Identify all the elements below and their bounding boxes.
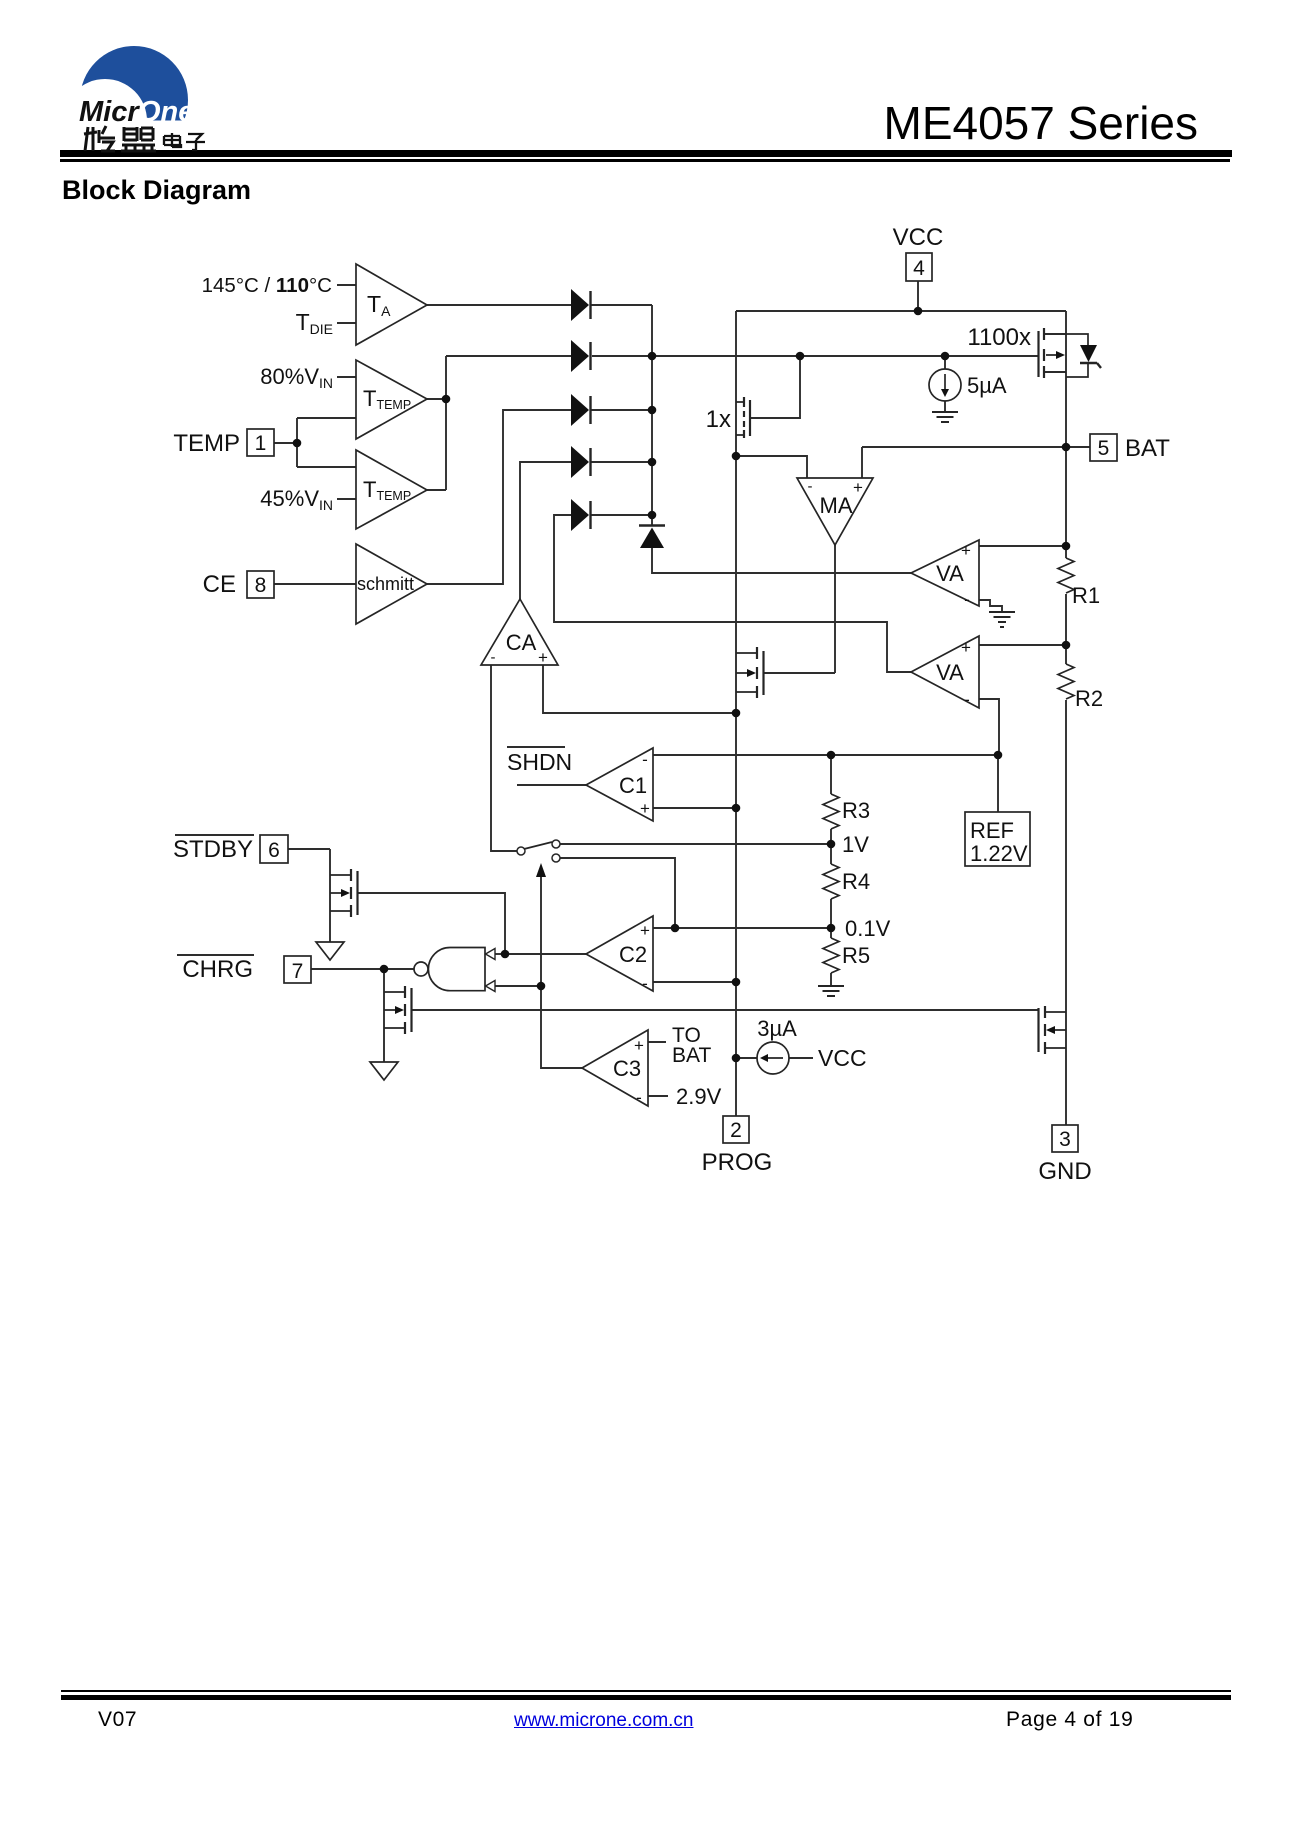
wire TA input TDIE	[337, 322, 356, 324]
junction CA noninv	[732, 709, 741, 718]
svg-text:3: 3	[1059, 1128, 1071, 1151]
switch control arrow	[536, 863, 546, 877]
svg-text:R1: R1	[1072, 583, 1100, 608]
pin box 6 STDBY	[260, 835, 288, 863]
junction C2 inv	[732, 978, 741, 987]
svg-text:+: +	[538, 648, 548, 667]
current source 5uA	[929, 369, 961, 401]
wire switch lower throw to C2 noninv	[560, 858, 675, 928]
svg-text:R3: R3	[842, 798, 870, 823]
ground triangle STDBY	[316, 942, 344, 960]
wire NAND upper input	[494, 953, 505, 955]
svg-text:C3: C3	[613, 1056, 641, 1081]
1100x body arrow	[1056, 351, 1065, 359]
CHRG FET body arrow	[395, 1006, 404, 1014]
junction bus row4	[648, 458, 657, 467]
logo CJK 盟	[121, 127, 156, 151]
NAND input arrow upper	[486, 949, 496, 960]
GND FET body arrow	[1046, 1026, 1055, 1034]
svg-text:1x: 1x	[706, 406, 731, 433]
junction bus row3	[648, 406, 657, 415]
svg-text:-: -	[964, 690, 970, 709]
junction VCC pin	[914, 307, 923, 316]
wire TA output to diode D1	[427, 304, 571, 306]
diode D1 bar	[589, 291, 591, 319]
wire VA1 noninv to BAT rail	[979, 545, 1066, 547]
overline SHDN	[507, 746, 565, 748]
junction 1x gate	[796, 352, 805, 361]
wire schmitt output up to diode D3	[427, 410, 571, 584]
wire OR bus vertical	[651, 305, 653, 525]
logo CJK 电	[164, 133, 181, 147]
wire STDBY pin to FET	[288, 848, 330, 850]
svg-text:2.9V: 2.9V	[676, 1084, 722, 1109]
svg-text:PROG: PROG	[702, 1149, 773, 1176]
wire 1x drain to MA inverting input	[736, 456, 807, 478]
wire SHDN net	[517, 784, 586, 786]
resistor R2	[1058, 664, 1074, 699]
svg-text:MA: MA	[820, 493, 853, 518]
op-amp CA	[481, 599, 558, 665]
wire BAT R1 R2 rail	[1065, 311, 1067, 1125]
wire VA2 noninv to R1R2 tap	[979, 644, 1066, 646]
transistor STDBY open-drain FET	[351, 869, 358, 917]
switch throw upper contact	[552, 840, 560, 848]
section heading	[62, 175, 251, 206]
wire TTEMP outputs bus to diode D2	[427, 356, 571, 490]
wire CHRG pin to NAND output	[311, 968, 414, 970]
svg-text:4: 4	[913, 257, 925, 280]
wire VA1 inv to ground	[979, 600, 1002, 612]
svg-text:SHDN: SHDN	[507, 749, 572, 775]
overline CHRG	[177, 954, 254, 956]
svg-text:5: 5	[1098, 437, 1110, 460]
wire switch control from C3	[541, 877, 582, 1068]
sense NMOS body arrow	[747, 669, 756, 677]
diode D5	[571, 499, 589, 531]
logo	[0, 0, 260, 165]
svg-text:1: 1	[255, 432, 267, 455]
wire REF box stub	[997, 755, 999, 812]
footer page	[1006, 1708, 1134, 1732]
resistor R3	[823, 794, 839, 829]
op-amp TTEMP upper	[356, 360, 427, 439]
wire C2 inv to PROG bus	[653, 981, 736, 983]
wire CE pin to schmitt	[274, 583, 356, 585]
junction REF box	[994, 751, 1003, 760]
transistor 1100x pass device	[1039, 328, 1045, 378]
svg-text:-: -	[642, 974, 648, 993]
transistor CHRG open-drain FET	[405, 986, 412, 1034]
wire C2 output	[505, 953, 586, 955]
svg-text:1V: 1V	[842, 832, 869, 857]
svg-text:7: 7	[292, 960, 304, 983]
svg-text:1100x: 1100x	[967, 324, 1031, 351]
wire STDBY FET gate to C2 output	[358, 893, 505, 954]
pin box 1 TEMP	[247, 429, 274, 456]
diode D3 bar	[589, 396, 591, 424]
svg-text:2: 2	[730, 1119, 742, 1142]
junction 5uA	[941, 352, 950, 361]
comparator C2	[586, 916, 653, 991]
junction NAND output	[380, 965, 389, 974]
svg-text:145°C / 110°C: 145°C / 110°C	[202, 274, 333, 297]
wire 5uA stub to row2 net	[944, 356, 946, 412]
pin box 7 CHRG	[284, 956, 311, 983]
wire D4 cathode to OR bus	[590, 461, 652, 463]
svg-text:6: 6	[268, 839, 280, 862]
svg-text:TDIE: TDIE	[296, 309, 333, 337]
STDBY FET body arrow	[341, 889, 350, 897]
wire D3 cathode to OR bus	[590, 409, 652, 411]
wire NAND lower input	[494, 985, 541, 987]
svg-text:TEMP: TEMP	[173, 430, 240, 457]
wire VA2 output to diode D5	[554, 515, 911, 672]
wire TA input 145C	[337, 284, 356, 286]
svg-text:1.22V: 1.22V	[970, 841, 1028, 866]
svg-text:5µA: 5µA	[967, 373, 1007, 398]
overline STDBY	[175, 834, 254, 836]
wire gate line to GND FET	[411, 1009, 1039, 1011]
diode D5 bar	[589, 501, 591, 529]
wire CA inverting input to switch pole	[491, 665, 517, 851]
logo blue dome	[80, 46, 188, 154]
svg-text:VCC: VCC	[893, 224, 944, 251]
pin box 2 PROG	[723, 1116, 749, 1143]
svg-text:CHRG: CHRG	[182, 956, 253, 983]
wire row2 net to 1100x gate	[592, 355, 1039, 357]
wire 1V tap to switch	[560, 843, 831, 845]
diode D6 bar	[639, 524, 665, 526]
wire 1x gate lead	[750, 356, 800, 418]
body diode branch wires	[1044, 334, 1088, 377]
svg-text:R2: R2	[1075, 686, 1103, 711]
svg-text:+: +	[961, 638, 971, 657]
junction 0.1V tap	[827, 924, 836, 933]
junction C3 output	[537, 982, 546, 991]
junction BAT	[1062, 443, 1071, 452]
wire C1 noninv to PROG bus	[653, 807, 736, 809]
svg-text:-: -	[642, 750, 648, 769]
diode D4 bar	[589, 448, 591, 476]
switch pole contact	[517, 847, 525, 855]
switch throw lower contact	[552, 854, 560, 862]
svg-text:R5: R5	[842, 943, 870, 968]
ground triangle CHRG	[370, 1062, 398, 1080]
junction bus row2	[648, 352, 657, 361]
svg-text:80%VIN: 80%VIN	[260, 364, 333, 391]
junction 1V tap	[827, 840, 836, 849]
body diode of 1100x	[1080, 345, 1097, 362]
svg-text:GND: GND	[1038, 1158, 1091, 1185]
svg-text:+: +	[640, 799, 650, 818]
diode D2	[571, 340, 589, 372]
op-amp TTEMP lower	[356, 450, 427, 529]
resistor R1	[1058, 558, 1074, 593]
junction 3uA	[732, 1054, 741, 1063]
svg-text:VA: VA	[936, 660, 964, 685]
svg-text:schmitt: schmitt	[357, 574, 414, 594]
op-amp MA	[797, 478, 873, 545]
ground hash 5uA	[932, 412, 958, 422]
junction C2 noninv	[671, 924, 680, 933]
wire R3 chain	[830, 755, 832, 986]
REF 1.22V box	[965, 812, 1030, 866]
svg-text:R4: R4	[842, 869, 870, 894]
resistor R4	[823, 864, 839, 899]
wire 80%VIN input	[337, 376, 356, 378]
footer link	[514, 1710, 694, 1732]
svg-text:BAT: BAT	[1125, 435, 1170, 462]
wire CA output up to diode D4	[520, 462, 571, 599]
svg-text:C2: C2	[619, 942, 647, 967]
svg-text:+: +	[640, 921, 650, 940]
wire 3uA to PROG bus	[736, 1057, 813, 1059]
resistor R5	[823, 938, 839, 973]
diode D4	[571, 446, 589, 478]
wire VCC top bus	[736, 310, 1066, 312]
NAND gate U1	[428, 948, 485, 991]
pin box 8 CE	[247, 571, 274, 598]
junction REF net R3	[827, 751, 836, 760]
svg-text:-: -	[964, 590, 970, 609]
wire C1 inv REF net	[653, 754, 999, 756]
NAND output bubble	[414, 962, 428, 976]
svg-text:C1: C1	[619, 773, 647, 798]
pin box 3 GND	[1052, 1125, 1078, 1152]
wire CA non-inverting input to PROG bus	[543, 665, 736, 713]
svg-text:+: +	[961, 541, 971, 560]
junction C2 output	[501, 950, 510, 959]
svg-text:-: -	[491, 649, 496, 666]
op-amp TA	[356, 264, 427, 345]
footer rule thick	[61, 1695, 1231, 1700]
body diode bar and tail	[1080, 363, 1101, 368]
svg-text:3µA: 3µA	[757, 1016, 797, 1041]
junction R1 R2 tap	[1062, 641, 1071, 650]
switch blade	[524, 842, 552, 849]
svg-text:+: +	[634, 1036, 644, 1055]
junction bus row5	[648, 511, 657, 520]
junction C1 noninv	[732, 804, 741, 813]
diode D1	[571, 289, 589, 321]
svg-text:STDBY: STDBY	[173, 836, 253, 863]
diode D3	[571, 394, 589, 426]
svg-text:CA: CA	[506, 630, 537, 655]
logo CJK 子	[186, 134, 205, 150]
junction 1x drain	[732, 452, 741, 461]
svg-text:VCC: VCC	[818, 1045, 867, 1071]
svg-text:0.1V: 0.1V	[845, 916, 891, 941]
comparator C3	[582, 1030, 648, 1106]
svg-text:+: +	[853, 478, 863, 497]
op-amp VA1	[911, 540, 979, 606]
footer version	[98, 1708, 137, 1732]
wire C2 noninv to 0.1V tap	[653, 927, 831, 929]
current source 3uA	[757, 1042, 789, 1074]
logo CJK 微	[84, 126, 115, 151]
svg-text:CE: CE	[203, 571, 236, 598]
schmitt trigger	[356, 544, 427, 624]
wire PROG center bus	[735, 311, 737, 1116]
svg-text:BAT: BAT	[672, 1044, 711, 1067]
wire VA2 inv to REF net	[979, 699, 999, 755]
svg-text:8: 8	[255, 574, 267, 597]
wire C3 noninv stub	[648, 1041, 666, 1043]
footer rule thin	[61, 1690, 1231, 1692]
svg-text:-: -	[636, 1088, 642, 1107]
wire VCC pin stub	[917, 281, 919, 311]
NAND input arrow lower	[486, 981, 496, 992]
diode D6 up	[640, 528, 664, 549]
junction TTEMP out	[442, 395, 451, 404]
junction TEMP	[293, 439, 302, 448]
transistor 1x pass device	[744, 397, 750, 438]
svg-text:-: -	[808, 478, 813, 495]
wire C3 inv stub	[648, 1095, 668, 1097]
wire MA non-inverting input to BAT	[862, 447, 1090, 478]
wire MA output to sense FET gate	[764, 545, 835, 673]
wire TEMP pin to comparators	[274, 418, 356, 467]
wire D1 cathode to OR bus	[590, 304, 652, 306]
header rule thin	[60, 159, 1230, 162]
wire D6 anode to VA1 output	[652, 548, 911, 573]
wire 45%VIN input	[337, 498, 356, 500]
comparator C1	[586, 748, 653, 821]
svg-text:VA: VA	[936, 561, 964, 586]
svg-text:45%VIN: 45%VIN	[260, 486, 333, 513]
diode D2 bar	[589, 342, 591, 370]
op-amp VA2	[911, 636, 979, 708]
wire CHRG FET rail	[383, 969, 385, 1062]
pin box 4 VCC	[906, 253, 932, 281]
transistor GND discharge FET	[1039, 1006, 1046, 1054]
header title	[0, 96, 1198, 150]
svg-text:REF: REF	[970, 818, 1014, 843]
header rule thick	[60, 150, 1232, 157]
junction R1 top	[1062, 542, 1071, 551]
ground hash below R5	[818, 986, 844, 996]
wire D5 cathode to OR bus	[590, 514, 652, 516]
transistor sense NMOS at MA output	[757, 647, 764, 698]
logo white inner circle	[63, 79, 147, 163]
pin box 5 BAT	[1090, 434, 1117, 461]
ground hash VA1	[989, 612, 1015, 627]
wire STDBY FET rail	[329, 849, 331, 942]
